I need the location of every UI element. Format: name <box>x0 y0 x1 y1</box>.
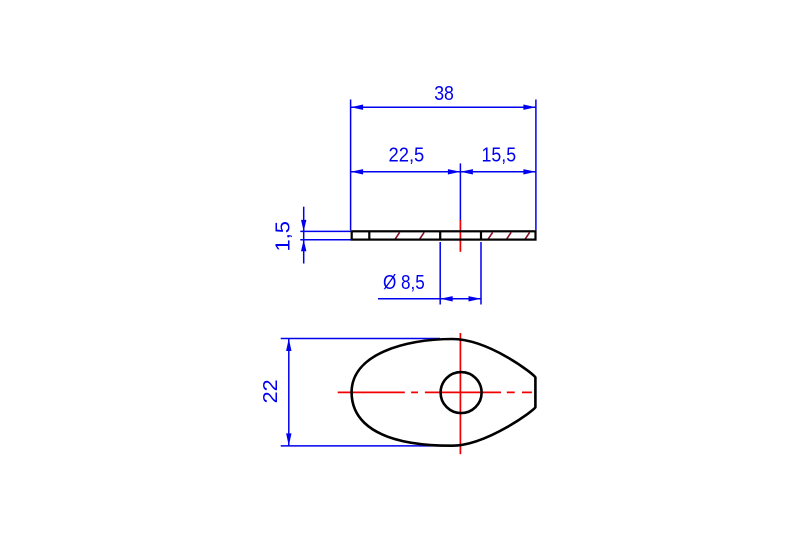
svg-text:22,5: 22,5 <box>389 144 425 166</box>
svg-text:38: 38 <box>434 83 454 105</box>
svg-text:1,5: 1,5 <box>272 221 294 252</box>
svg-text:15,5: 15,5 <box>482 144 517 166</box>
svg-text:22: 22 <box>260 379 282 403</box>
svg-text:Ø 8,5: Ø 8,5 <box>383 272 425 294</box>
